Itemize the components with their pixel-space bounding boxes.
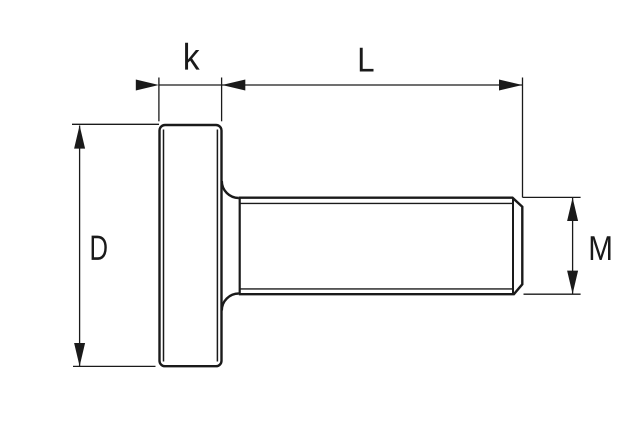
D extension line top	[72, 123, 159, 125]
screw head left chamfer edge line	[163, 130, 165, 362]
thread minor diameter line bottom	[240, 288, 513, 290]
k extension line left	[158, 78, 160, 122]
D arrow bottom (pointing down)	[74, 343, 85, 366]
screw head right chamfer edge line	[216, 130, 218, 362]
k extension line right	[221, 78, 223, 122]
label M	[591, 236, 611, 260]
D arrow top (pointing up)	[74, 125, 85, 148]
L arrow right (pointing right)	[499, 80, 522, 91]
M dimension line	[572, 198, 574, 294]
thread minor diameter line top	[240, 202, 513, 204]
label L	[360, 48, 374, 72]
D dimension line	[79, 126, 81, 367]
thread end line at head	[239, 198, 241, 295]
M extension line top	[523, 196, 581, 198]
D extension line bottom	[73, 365, 156, 367]
M arrow top (pointing up)	[567, 198, 578, 221]
fillet head-to-shank top	[222, 181, 239, 198]
k arrow left (outside, pointing right)	[136, 80, 159, 91]
M arrow bottom (pointing down)	[567, 271, 578, 294]
k and L dimension line	[159, 84, 522, 86]
L extension line right	[522, 78, 524, 198]
label D	[92, 236, 107, 260]
label k	[185, 43, 200, 70]
k arrow right / L arrow left (pointing left)	[222, 80, 245, 91]
chamfer edge line at shank tip	[512, 198, 514, 295]
fillet head-to-shank bottom	[222, 294, 239, 311]
screw head outline	[160, 125, 222, 366]
M extension line bottom	[524, 293, 581, 295]
shank outline with end chamfer	[239, 198, 523, 295]
